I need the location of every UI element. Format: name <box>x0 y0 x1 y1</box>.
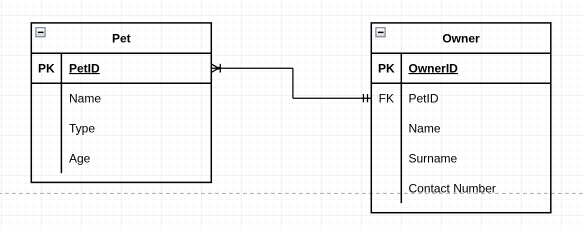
Owner collapse icon <box>376 28 385 37</box>
cardinality crow's foot at Pet <box>211 64 220 73</box>
wire Pet.PetID horizontal segment <box>211 67 293 69</box>
crow's foot junction dot <box>217 67 220 70</box>
Pet PetID underline <box>69 73 100 75</box>
Pet header separator <box>31 52 211 54</box>
svg-text:Contact Number: Contact Number <box>409 181 496 195</box>
cardinality double tick at Owner <box>363 94 367 102</box>
svg-text:Surname: Surname <box>409 151 458 165</box>
svg-text:FK: FK <box>379 91 394 105</box>
svg-text:Pet: Pet <box>112 32 131 46</box>
Pet key column divider <box>60 53 62 173</box>
svg-text:Name: Name <box>69 91 101 105</box>
svg-text:Name: Name <box>409 121 441 135</box>
svg-text:Owner: Owner <box>442 32 480 46</box>
entity table Owner <box>371 23 551 213</box>
svg-text:PK: PK <box>378 61 395 75</box>
Pet collapse icon <box>36 28 45 37</box>
svg-text:Type: Type <box>69 121 95 135</box>
wire Owner.FK horizontal segment <box>293 97 371 99</box>
svg-text:PetID: PetID <box>409 91 439 105</box>
Owner key column divider <box>400 53 402 203</box>
Owner header separator <box>371 52 551 54</box>
entity table Pet <box>31 23 211 183</box>
svg-text:Age: Age <box>69 151 91 165</box>
svg-text:PK: PK <box>38 61 55 75</box>
page boundary dashed line <box>0 192 584 194</box>
Owner PK row separator <box>371 82 551 84</box>
Owner OwnerID underline <box>409 73 459 75</box>
wire vertical segment <box>292 68 294 98</box>
Pet PK row separator <box>31 82 211 84</box>
